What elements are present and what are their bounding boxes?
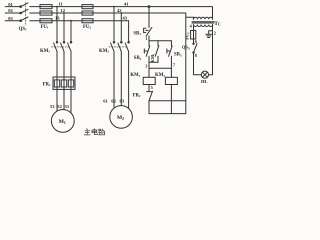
motor M1	[51, 110, 74, 133]
svg-text:7: 7	[173, 63, 176, 68]
svg-text:42: 42	[117, 8, 122, 13]
svg-text:FR1: FR1	[43, 82, 51, 87]
coil KM2	[165, 77, 177, 84]
wire M1 branch drops	[57, 7, 71, 42]
svg-text:QS1: QS1	[19, 27, 27, 32]
svg-text:M2: M2	[117, 115, 124, 121]
fuse FU2	[82, 5, 93, 23]
svg-text:FU2: FU2	[83, 25, 91, 30]
lamp HL	[201, 71, 208, 78]
svg-text:HL: HL	[201, 79, 208, 84]
svg-text:SB2: SB2	[134, 56, 142, 61]
svg-text:3: 3	[145, 64, 147, 69]
svg-text:5: 5	[151, 85, 153, 90]
wire control rail from L1	[148, 7, 150, 28]
svg-text:61: 61	[103, 98, 108, 103]
svg-text:01: 01	[8, 2, 13, 7]
label main circuit caption (hand-drawn CJK strokes: 主电路)	[84, 129, 105, 135]
svg-text:6: 6	[195, 39, 197, 44]
svg-text:63: 63	[120, 98, 125, 103]
junction dots M2 taps	[113, 6, 122, 14]
contactor KM2 main contacts	[109, 42, 130, 52]
svg-text:KM1: KM1	[40, 49, 50, 54]
svg-text:M1: M1	[59, 119, 66, 125]
pushbutton SB2 start NO	[144, 41, 150, 63]
wire coil KM2 bottom	[170, 85, 172, 114]
fuse FU3	[191, 30, 196, 39]
svg-text:KM2: KM2	[99, 49, 109, 54]
svg-text:62: 62	[111, 98, 116, 103]
svg-text:KM1: KM1	[150, 53, 156, 62]
svg-text:SB3: SB3	[174, 53, 182, 58]
motor M2	[110, 106, 133, 129]
transformer TC	[192, 17, 214, 26]
junction dots M1 taps	[56, 6, 72, 22]
contactor KM1 main contacts	[52, 42, 72, 52]
wire L2 phase bus	[5, 13, 193, 114]
switch QS5	[193, 43, 197, 53]
wire M2 branch mid	[114, 51, 129, 108]
ground	[206, 31, 213, 38]
svg-text:11: 11	[59, 1, 64, 6]
coil KM1	[143, 77, 155, 84]
svg-text:FR1: FR1	[133, 93, 141, 98]
svg-text:12: 12	[61, 8, 66, 13]
svg-text:52: 52	[57, 104, 62, 109]
contact KM1 auxiliary NO	[149, 41, 159, 63]
svg-text:51: 51	[65, 104, 70, 109]
svg-text:4: 4	[190, 23, 193, 28]
svg-text:KM2: KM2	[155, 73, 165, 78]
pushbutton SB1 stop NC	[144, 27, 152, 40]
wire L3 phase bus	[5, 20, 128, 22]
svg-text:SB1: SB1	[133, 31, 141, 36]
switch QS1	[20, 3, 28, 25]
svg-text:41: 41	[124, 1, 129, 6]
wire node3 link	[149, 62, 171, 77]
svg-text:02: 02	[8, 8, 13, 13]
wire lamp branch	[194, 25, 213, 75]
svg-text:2: 2	[214, 30, 216, 35]
svg-text:QS5: QS5	[182, 45, 190, 51]
svg-text:FU1: FU1	[41, 25, 49, 30]
svg-text:TC: TC	[214, 21, 221, 27]
svg-text:KM1: KM1	[130, 73, 140, 78]
wire M1 branch mid	[57, 51, 71, 113]
wire M2 branch drops	[114, 7, 129, 42]
thermal relay FR1 heater box	[53, 77, 75, 89]
svg-text:8: 8	[195, 53, 197, 58]
svg-text:53: 53	[50, 104, 55, 109]
pushbutton SB3 NO	[167, 41, 172, 78]
wire secondary left	[193, 25, 195, 44]
svg-text:1: 1	[145, 36, 147, 41]
fuse FU1	[40, 5, 52, 23]
wire coil KM1 bottom	[148, 85, 150, 92]
svg-text:43: 43	[123, 16, 128, 21]
wire control bottom loops	[149, 101, 186, 114]
svg-text:03: 03	[8, 16, 13, 21]
svg-text:13: 13	[55, 16, 60, 21]
contact FR1 thermal NC	[147, 91, 153, 101]
wire control top bus	[149, 40, 171, 42]
wire L1 phase bus	[5, 7, 212, 20]
